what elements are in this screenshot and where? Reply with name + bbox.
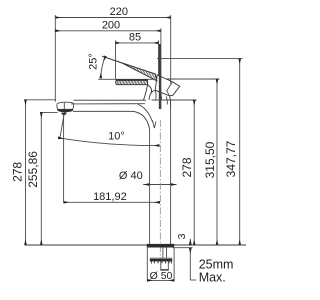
dimension right 278 top extension line [152,99,197,101]
lever rear inner line [167,82,173,96]
aerator outline [57,102,74,109]
svg-text:Max.: Max. [199,270,226,284]
threaded stub below nut [160,261,162,270]
lever handle horizontal position [115,79,149,86]
svg-text:Ø 40: Ø 40 [119,170,143,182]
dimension diameter 50 line [147,279,174,281]
dimension 200 right extension line [160,28,162,109]
svg-text:220: 220 [110,6,128,18]
dimension 315,50 top extension line [166,78,220,80]
dimension 255,86 line [40,112,42,245]
merged extension lines thick segment [159,44,161,109]
lever handle raised position [102,56,160,81]
base flange [147,244,174,248]
lock nut top line [150,257,172,259]
svg-text:278: 278 [11,162,25,182]
dimension 3 upper line with arrow [189,239,191,245]
lever neck cap curves [148,85,152,100]
lock nut teeth [152,261,172,263]
dimension 347,77 top extension line [157,58,243,60]
dimension 3 lower arrow and max leader [189,248,191,280]
spout inner fillet curve [138,104,153,122]
shank box right edge [173,248,175,281]
spout fillet V detail [152,120,156,128]
stub dark bottom [161,269,169,270]
dimension 220 right extension line [170,15,172,84]
svg-text:255,86: 255,86 [26,151,40,188]
svg-text:315,50: 315,50 [203,141,217,178]
dimension 3 lower extension line [173,247,193,249]
svg-text:25mm: 25mm [199,257,234,271]
angle 10 degree tilted stream line [60,111,65,139]
dimension diameter 40 line [143,184,176,186]
faucet centerline [159,120,161,262]
dimension 85 right extension line [158,40,160,75]
dimension left 278 line [25,100,27,245]
angle 10 degree arc [58,138,159,146]
lock nut dark band [150,259,172,262]
threaded rod [162,248,164,259]
spout top edge [74,99,147,101]
faucet column right edge [170,109,172,245]
svg-text:10°: 10° [108,131,125,143]
countertop line [25,244,246,246]
dimension 200 line [55,30,161,32]
dimension 220 left extension line [54,15,56,102]
aerator face dark band [57,109,73,112]
dimension 85 left extension line [115,40,117,79]
dimension 255,86 top extension line [40,111,58,113]
svg-text:25°: 25° [88,53,100,70]
aerator nub [61,113,67,115]
shank box left edge [146,248,148,281]
svg-text:3: 3 [176,233,188,239]
vertical stream extension line from outlet [63,114,65,202]
svg-text:200: 200 [102,19,120,31]
dimension left 278 top extension line [24,99,56,101]
svg-text:85: 85 [129,31,141,43]
svg-text:278: 278 [180,157,194,177]
spout bottom edge with fillet curve [73,111,150,129]
dimension 220 line [55,17,170,19]
dimension right 278 line [193,100,195,245]
spout second top line [71,103,145,105]
dimension 347,77 line [239,59,241,245]
aerator inner line [63,102,65,109]
body neck right edge [170,96,171,109]
faucet column left edge [149,130,151,245]
dimension 181,92 line [64,201,160,203]
svg-text:347,77: 347,77 [224,140,238,177]
dimension 315,50 line [216,79,218,245]
lever rear end polygon [155,75,180,96]
dimension 85 line [116,42,159,44]
angle 25 degree reference line [98,78,157,80]
max leader foot [190,279,196,281]
angle 25 degree arc [101,56,106,78]
svg-text:181,92: 181,92 [93,191,127,203]
